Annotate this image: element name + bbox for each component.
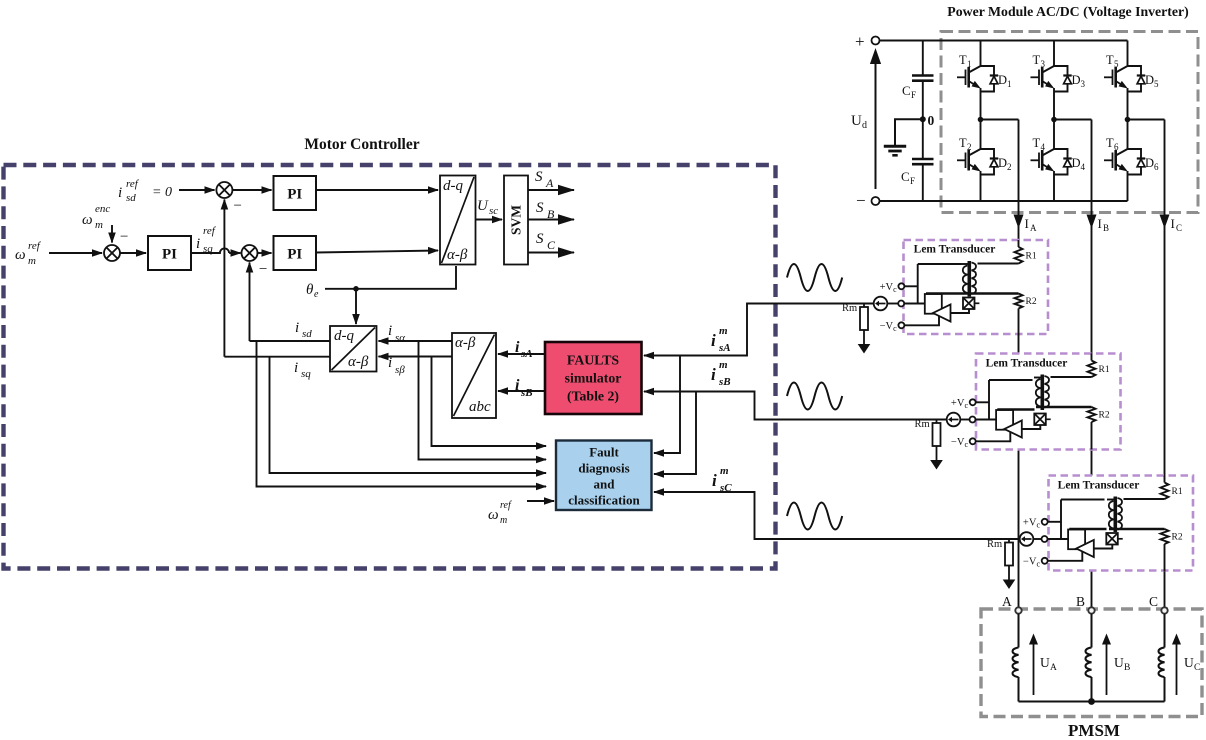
wire q summer to PI q	[257, 252, 272, 254]
svg-text:0: 0	[928, 113, 935, 128]
diode D4	[1054, 149, 1072, 175]
wire i_sq feedback up into d summer	[223, 200, 225, 357]
svg-text:−: −	[258, 262, 268, 278]
wire phase A vertical line	[1018, 120, 1020, 608]
svg-text:UC: UC	[1184, 655, 1200, 673]
wire phase B vertical line	[1091, 120, 1093, 608]
wire PI speed output with hop over feedback line, into q summer	[191, 248, 229, 253]
Power Module dashed frame	[941, 32, 1198, 213]
wire theta_e line	[325, 266, 456, 289]
wire PI d to dq-ab transform	[316, 189, 438, 191]
node A terminal	[1015, 607, 1021, 613]
current source symbol row C	[1020, 532, 1034, 546]
PI speed controller box	[148, 236, 191, 270]
svg-text:isBm: isBm	[711, 359, 731, 388]
svg-text:B: B	[1076, 594, 1085, 609]
wire T3 emitter to mid node B	[1053, 88, 1055, 120]
svg-text:SB: SB	[536, 200, 555, 221]
wire i_sd ref arrow into d summer	[179, 189, 215, 191]
wire i_sB_m branch to fault diagnosis right input 2	[654, 392, 696, 475]
wire gate signal S_B	[528, 219, 574, 221]
svg-text:IC: IC	[1171, 216, 1183, 233]
svg-text:Ud: Ud	[851, 113, 867, 131]
phase leg C upper rail drop	[1127, 41, 1129, 67]
sine symbol phase C	[787, 503, 842, 530]
sine symbol phase A	[787, 264, 842, 291]
svg-text:T3: T3	[1033, 53, 1046, 69]
diode D5	[1128, 66, 1146, 92]
transistor T3	[1031, 66, 1055, 89]
junction mid node B	[1051, 117, 1057, 123]
svg-text:T2: T2	[959, 136, 972, 152]
Motor Controller dashed frame	[4, 165, 776, 569]
wire i_sA_m branch to fault diagnosis right input 1	[654, 356, 680, 454]
svg-text:θe: θe	[306, 282, 319, 300]
diode D6	[1128, 149, 1146, 175]
emf arrow U_A	[1033, 643, 1035, 695]
wire T2 emitter to DC- rail	[980, 171, 982, 201]
summing junction speed	[104, 245, 120, 261]
svg-text:UA: UA	[1040, 655, 1057, 673]
wire i_sq line to dq block	[224, 356, 330, 358]
transform block dq to alpha-beta (voltage, big)	[440, 176, 476, 265]
wire i_sC_m measured current into fault diagnosis right input 3	[654, 492, 1020, 539]
svg-text:T1: T1	[959, 53, 972, 69]
wire i_sbeta into dq block	[379, 356, 453, 358]
svg-text:PMSM: PMSM	[1068, 721, 1120, 740]
wire speed summer to PI speed	[120, 252, 147, 254]
svg-text:Lem Transducer: Lem Transducer	[914, 244, 996, 256]
summing junction q-axis	[242, 245, 258, 261]
wire T1 emitter to mid node A	[980, 88, 982, 120]
svg-text:Rm: Rm	[915, 419, 930, 430]
wire phase C output elbow	[1128, 119, 1165, 121]
Lem Transducer 3 input side	[1023, 500, 1123, 569]
junction mid node C	[1125, 117, 1131, 123]
current source symbol row B	[947, 413, 961, 427]
svg-text:+: +	[855, 32, 865, 51]
svg-text:ωmref: ωmref	[488, 500, 512, 526]
transistor T4	[1031, 149, 1055, 172]
svg-text:Rm: Rm	[842, 303, 857, 314]
svg-text:D1: D1	[998, 73, 1012, 89]
svg-text:isq: isq	[294, 360, 311, 380]
node C terminal	[1161, 607, 1167, 613]
transistor T5	[1104, 66, 1128, 89]
svg-text:Usc: Usc	[477, 198, 498, 217]
wire phase C vertical line	[1164, 120, 1166, 608]
SVM block	[504, 176, 528, 265]
svg-text:IA: IA	[1025, 216, 1038, 233]
svg-text:D4: D4	[1072, 156, 1086, 172]
svg-text:FAULTSsimulator(Table 2): FAULTSsimulator(Table 2)	[565, 353, 622, 405]
emf arrow U_B	[1106, 643, 1108, 695]
svg-text:isA: isA	[515, 339, 533, 360]
node - terminal	[872, 197, 880, 205]
emf arrow U_C	[1176, 643, 1178, 695]
svg-text:isdref= 0: isdref= 0	[118, 178, 172, 204]
svg-text:ωmref: ωmref	[15, 240, 42, 267]
current arrow I_C	[1160, 215, 1170, 229]
junction star point dot	[1088, 698, 1095, 705]
Lem Transducer 3 transformer with burden resistors R1 R2	[1107, 476, 1183, 572]
wire T5 emitter to mid node C	[1127, 88, 1129, 120]
svg-text:Motor Controller: Motor Controller	[304, 136, 419, 153]
svg-text:isCm: isCm	[712, 465, 732, 494]
wire omega enc feedback arrow into speed summer	[111, 225, 113, 243]
summing junction d-axis	[216, 182, 232, 198]
svg-text:PI: PI	[162, 247, 177, 263]
node B terminal	[1088, 607, 1094, 613]
transform block alpha-beta to abc	[452, 333, 496, 418]
resistor Rm row C	[1003, 539, 1016, 589]
wire row A into transducer terminal	[887, 303, 898, 305]
wire phase B output elbow	[1054, 119, 1092, 121]
svg-text:SVM: SVM	[509, 205, 524, 235]
junction theta_e node dot	[353, 286, 359, 292]
FAULTS simulator block	[545, 342, 642, 414]
wire U_sc into SVM	[476, 219, 503, 221]
svg-text:−: −	[119, 229, 129, 245]
svg-text:SA: SA	[535, 169, 554, 190]
wire row C into transducer terminal	[1033, 538, 1045, 540]
wire i_sB_m measured current into faults simulator	[644, 392, 947, 420]
winding phase A	[1018, 614, 1020, 648]
transform block dq to alpha-beta (current)	[330, 326, 377, 372]
svg-text:UB: UB	[1114, 655, 1130, 673]
wire i_sd feedback up into q summer	[249, 263, 251, 342]
wire i_sd branch down to fault diagnosis input 4	[257, 341, 547, 487]
svg-text:PI: PI	[287, 187, 302, 203]
current arrow I_A	[1014, 215, 1024, 229]
svg-text:Power Module AC/DC (Voltage In: Power Module AC/DC (Voltage Inverter)	[947, 4, 1188, 20]
svg-text:isAm: isAm	[711, 325, 731, 354]
svg-text:isd: isd	[295, 320, 312, 340]
wire gate signal S_C	[528, 252, 574, 254]
svg-text:D5: D5	[1145, 73, 1159, 89]
current source symbol row A	[874, 297, 888, 311]
wire mid node A to collector T2	[980, 120, 982, 150]
Lem Transducer 1 input side	[880, 264, 980, 333]
wire i_salpha branch down to fault diagnosis input 2	[419, 341, 547, 460]
sine symbol phase B	[787, 383, 842, 410]
transistor T2	[957, 149, 981, 172]
wire i_sd line to dq block	[250, 340, 331, 342]
wire gate signal S_A	[528, 189, 574, 191]
voltage arrow U_d	[875, 62, 877, 189]
wire i_sA from faults simulator to abc block	[498, 353, 545, 355]
svg-text:isβ: isβ	[388, 355, 405, 376]
wire PI q to dq-ab transform	[316, 251, 438, 253]
Lem Transducer 1 transformer with burden resistors R1 R2	[961, 240, 1037, 336]
capacitor C_F upper	[922, 41, 924, 76]
wire star point rail	[1019, 701, 1165, 703]
wire i_sq branch down to fault diagnosis input 3	[270, 357, 547, 473]
diode D2	[981, 149, 999, 175]
svg-text:ωmenc: ωmenc	[82, 203, 110, 231]
wire i_sA_m measured current into faults simulator	[644, 304, 874, 356]
svg-text:Lem Transducer: Lem Transducer	[1058, 480, 1140, 492]
wire i_sbeta branch down to fault diagnosis input 1	[432, 357, 547, 447]
wire phase A output elbow	[981, 119, 1019, 121]
winding phase B	[1091, 614, 1093, 648]
diode D3	[1054, 66, 1072, 92]
svg-text:CF: CF	[901, 169, 915, 186]
svg-text:A: A	[1002, 594, 1012, 609]
wire theta_e down into dq block	[355, 289, 357, 324]
capacitor C_F lower	[912, 158, 934, 161]
svg-text:−: −	[856, 191, 866, 210]
Lem Transducer 2 input side	[951, 380, 1051, 449]
PMSM dashed frame	[981, 609, 1202, 717]
svg-text:isB: isB	[515, 377, 533, 399]
svg-text:D3: D3	[1072, 73, 1086, 89]
Lem Transducer 1 frame	[904, 240, 1049, 334]
wire d summer to PI d	[232, 189, 272, 191]
wire DC+ rail	[880, 40, 1128, 42]
phase leg B upper rail drop	[1053, 41, 1055, 67]
svg-text:CF: CF	[902, 83, 916, 100]
ground	[895, 119, 923, 145]
wire omega ref input arrow	[49, 252, 102, 254]
svg-text:PI: PI	[287, 247, 302, 263]
svg-text:T5: T5	[1106, 53, 1119, 69]
resistor Rm row B	[930, 420, 943, 470]
svg-text:SC: SC	[536, 231, 556, 252]
PI d-axis controller box	[274, 176, 317, 210]
svg-text:T6: T6	[1106, 136, 1119, 152]
Lem Transducer 3 frame	[1049, 476, 1194, 571]
wire mid node B to collector T4	[1053, 120, 1055, 150]
wire T4 emitter to DC- rail	[1053, 171, 1055, 201]
transistor T6	[1104, 149, 1128, 172]
wire measured current row C	[1020, 538, 1033, 540]
svg-text:isqref: isqref	[196, 225, 217, 255]
Lem Transducer 2 frame	[976, 354, 1121, 450]
diode D1	[981, 66, 999, 92]
junction mid node A	[978, 117, 984, 123]
svg-text:D2: D2	[998, 156, 1012, 172]
wire measured current row A	[747, 303, 874, 305]
wire T6 emitter to DC- rail	[1127, 171, 1129, 201]
wire row B into transducer terminal	[960, 419, 972, 421]
svg-text:−: −	[233, 198, 243, 214]
wire mid node C to collector T6	[1127, 120, 1129, 150]
Fault diagnosis block	[556, 441, 652, 511]
node 0 midpoint dot	[920, 116, 926, 122]
wire i_sB from faults simulator to abc block	[498, 390, 545, 392]
svg-text:C: C	[1149, 594, 1158, 609]
wire omega ref arrow into fault diagnosis	[527, 500, 554, 502]
svg-text:D6: D6	[1145, 156, 1159, 172]
svg-text:IB: IB	[1098, 216, 1110, 233]
Lem Transducer 2 transformer with burden resistors R1 R2	[1034, 354, 1110, 450]
node + terminal	[872, 37, 880, 45]
winding phase C	[1164, 614, 1166, 648]
current arrow I_B	[1087, 215, 1097, 229]
PI q-axis controller box	[274, 236, 317, 270]
wire measured current row B	[755, 419, 948, 421]
transistor T1	[957, 66, 981, 89]
wire i_salpha into dq block	[379, 340, 453, 342]
svg-text:Rm: Rm	[987, 539, 1002, 550]
phase leg A upper rail drop	[980, 41, 982, 67]
resistor Rm row A	[858, 304, 871, 354]
svg-text:T4: T4	[1033, 136, 1046, 152]
wire DC- rail	[880, 200, 1128, 202]
svg-text:Lem Transducer: Lem Transducer	[986, 358, 1068, 370]
